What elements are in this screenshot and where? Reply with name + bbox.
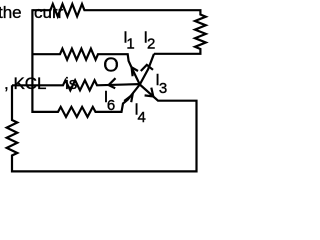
svg-text:I6: I6 <box>104 89 115 114</box>
svg-text:O: O <box>103 54 119 76</box>
svg-text:I2: I2 <box>144 30 156 53</box>
svg-text:I4: I4 <box>134 102 145 126</box>
svg-text:I1: I1 <box>123 30 134 53</box>
svg-text:I3: I3 <box>155 72 167 97</box>
